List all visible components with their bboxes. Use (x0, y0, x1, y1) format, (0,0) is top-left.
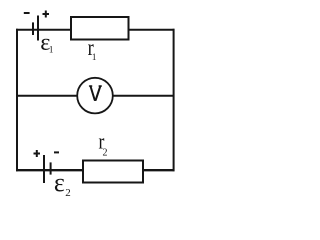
svg-text:1: 1 (49, 45, 54, 55)
resistor R2 (83, 161, 143, 183)
battery E2 minus sign (54, 151, 59, 153)
wire bottom (16, 169, 175, 171)
svg-text:ε: ε (54, 168, 65, 197)
svg-text:2: 2 (65, 187, 71, 199)
svg-text:2: 2 (103, 148, 108, 159)
battery E2 (44, 155, 51, 183)
wire middle (16, 95, 175, 97)
battery E1 (33, 16, 38, 41)
resistor R1 (71, 17, 129, 40)
wire left (16, 29, 18, 172)
voltmeter letter V (90, 86, 102, 100)
voltmeter V (77, 78, 113, 114)
svg-text:1: 1 (92, 52, 97, 62)
battery E1 plus sign (43, 11, 50, 18)
battery E1 minus sign (24, 12, 30, 14)
wire top (16, 29, 175, 31)
wire right (173, 29, 175, 172)
battery E2 plus sign (34, 150, 41, 157)
